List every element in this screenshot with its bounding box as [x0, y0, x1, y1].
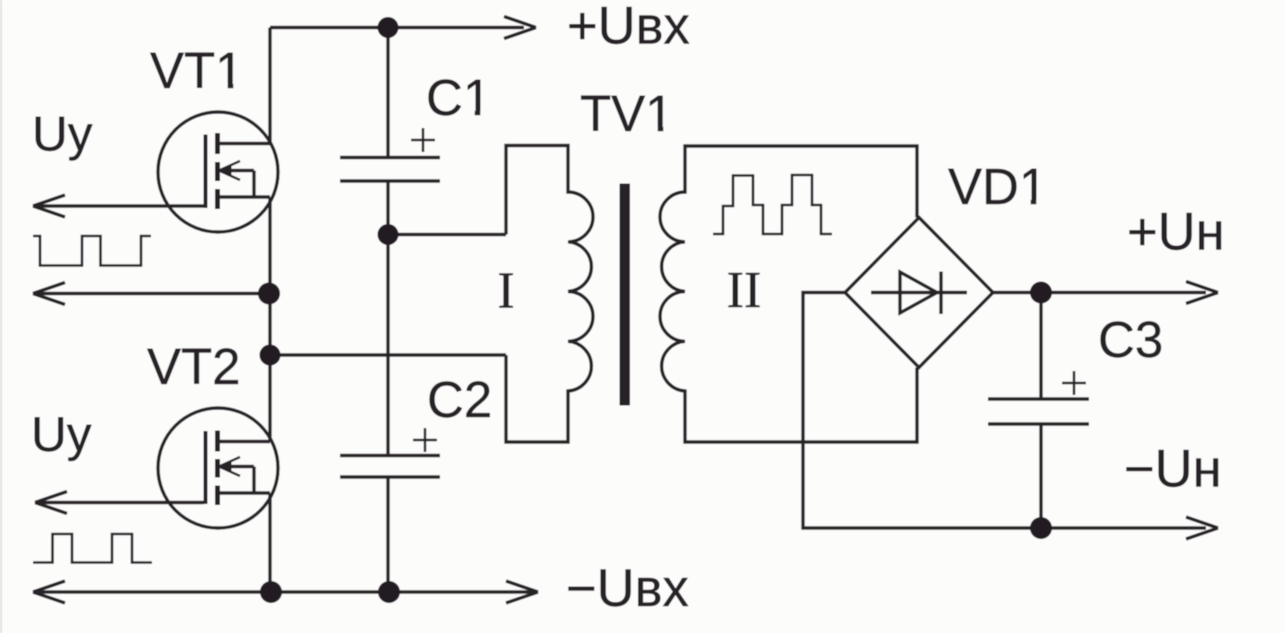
- svg-text:C3: C3: [1098, 311, 1163, 368]
- svg-text:VT1: VT1: [150, 42, 244, 99]
- svg-text:Uy: Uy: [31, 407, 92, 462]
- svg-text:VT2: VT2: [147, 338, 241, 395]
- svg-text:+Uвх: +Uвх: [567, 0, 690, 55]
- svg-text:+Uн: +Uн: [1127, 202, 1225, 261]
- svg-text:Uy: Uy: [32, 107, 93, 162]
- svg-text:II: II: [727, 262, 762, 319]
- svg-text:I: I: [497, 263, 514, 320]
- svg-text:−Uвх: −Uвх: [566, 559, 689, 618]
- svg-text:C1: C1: [426, 69, 491, 126]
- svg-text:TV1: TV1: [580, 85, 674, 142]
- svg-text:VD1: VD1: [948, 158, 1047, 215]
- svg-text:−Uн: −Uн: [1124, 440, 1222, 499]
- svg-text:C2: C2: [427, 371, 492, 428]
